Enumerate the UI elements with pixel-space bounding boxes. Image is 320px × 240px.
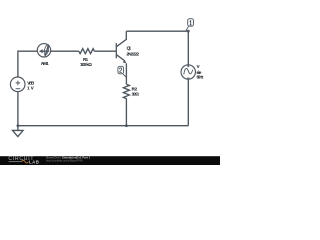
svg-text:100 kΩ: 100 kΩ [80, 62, 92, 67]
svg-text:LAB: LAB [29, 159, 39, 164]
svg-text:V: V [197, 64, 200, 69]
svg-text:Q1: Q1 [127, 46, 132, 51]
svg-text:AM1: AM1 [41, 61, 49, 66]
svg-text:R2: R2 [132, 86, 138, 91]
svg-text:1 V: 1 V [27, 85, 34, 90]
svg-text:http://circuitlab.com/c/58qzy9: http://circuitlab.com/c/58qzy9T49t [46, 159, 83, 163]
svg-text:60 Hz: 60 Hz [197, 75, 205, 80]
svg-text:2N2222: 2N2222 [126, 52, 139, 57]
svg-text:10 Ω: 10 Ω [132, 92, 140, 97]
